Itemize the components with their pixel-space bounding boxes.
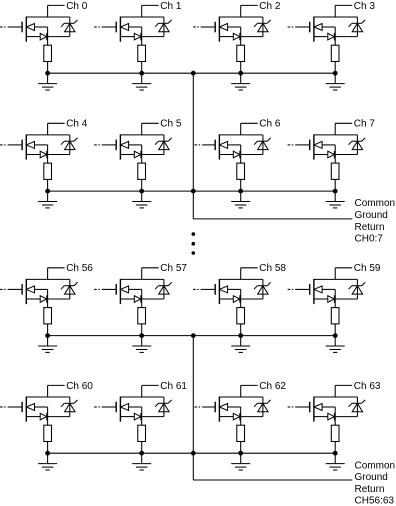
wire source/body node Ch 61	[120, 407, 163, 425]
ground Ch 1	[132, 73, 151, 90]
zener diode Z3 (clamp)	[349, 17, 366, 37]
wire drain / channel terminal Ch 62	[219, 385, 263, 397]
zener diode Z0 (clamp)	[61, 17, 78, 37]
ground Ch 59	[326, 336, 345, 353]
node junction Ch 56 on common rail	[45, 333, 50, 338]
wire resistor R56 to common rail	[47, 324, 49, 336]
diode D3 (source series diode)	[328, 33, 335, 40]
diode D61 (source series diode)	[134, 413, 141, 420]
node junction Ch 2 on common rail	[238, 71, 243, 76]
node junction Ch 1 on common rail	[139, 71, 144, 76]
resistor R62	[237, 425, 245, 441]
wire source/body node Ch 63	[314, 407, 358, 425]
wire resistor R3 to common rail	[334, 62, 336, 74]
node vertical ellipsis (channels 8..55 omitted)	[192, 232, 196, 255]
wire drain / channel terminal Ch 5	[120, 123, 163, 135]
diode D0 (source series diode)	[40, 33, 47, 40]
zener diode Z2 (clamp)	[254, 17, 271, 37]
zener diode Z7 (clamp)	[349, 135, 366, 155]
wire source/body node Ch 3	[314, 27, 358, 45]
diode D56 (source series diode)	[40, 295, 47, 302]
wire drain / channel terminal Ch 56	[26, 268, 70, 280]
svg-text:Ch 58: Ch 58	[259, 263, 286, 274]
ground Ch 60	[38, 453, 57, 470]
wire resistor R60 to common rail	[47, 442, 49, 454]
wire source/body node Ch 5	[120, 145, 163, 163]
node junction common return on rail 1	[191, 71, 196, 76]
svg-text:Ch 62: Ch 62	[259, 381, 286, 392]
transistor Q4 N-channel MOSFET switch Ch 4	[22, 134, 34, 159]
zener diode Z56 (clamp)	[61, 279, 78, 299]
wire resistor R7 to common rail	[334, 179, 336, 191]
transistor Q0 N-channel MOSFET switch Ch 0	[22, 17, 34, 42]
wire resistor R0 to common rail	[47, 62, 49, 74]
svg-text:Ch 2: Ch 2	[259, 1, 281, 12]
wire resistor R4 to common rail	[47, 179, 49, 191]
wire resistor R5 to common rail	[141, 179, 143, 191]
zener diode Z63 (clamp)	[349, 397, 366, 417]
resistor R6	[237, 163, 245, 179]
zener diode Z58 (clamp)	[254, 279, 271, 299]
transistor Q62 N-channel MOSFET switch Ch 62	[215, 397, 227, 422]
node junction Ch 58 on common rail	[238, 333, 243, 338]
node junction Ch 59 on common rail	[333, 333, 338, 338]
node junction Ch 7 on common rail	[333, 189, 338, 194]
wire gate control lead Ch 5 (dash-dot)	[94, 144, 116, 146]
svg-text:Ch 7: Ch 7	[354, 119, 376, 130]
zener diode Z5 (clamp)	[155, 135, 172, 155]
wire source/body node Ch 57	[120, 289, 163, 307]
wire source/body node Ch 60	[26, 407, 70, 425]
ground Ch 4	[38, 191, 57, 208]
node junction Ch 4 on common rail	[45, 189, 50, 194]
wire resistor R2 to common rail	[240, 62, 242, 74]
wire gate control lead Ch 3 (dash-dot)	[288, 26, 310, 28]
node junction Ch 5 on common rail	[139, 189, 144, 194]
wire drain / channel terminal Ch 1	[120, 5, 163, 17]
wire drain / channel terminal Ch 57	[120, 268, 163, 280]
diode D62 (source series diode)	[233, 413, 240, 420]
svg-text:CommonGroundReturnCH56:63: CommonGroundReturnCH56:63	[355, 460, 396, 506]
wire resistor R62 to common rail	[240, 442, 242, 454]
zener diode Z6 (clamp)	[254, 135, 271, 155]
ground Ch 3	[326, 73, 345, 90]
diode D1 (source series diode)	[134, 33, 141, 40]
wire drain / channel terminal Ch 61	[120, 385, 163, 397]
ground Ch 56	[38, 336, 57, 353]
wire gate control lead Ch 63 (dash-dot)	[288, 406, 310, 408]
resistor R1	[138, 45, 146, 61]
diode D2 (source series diode)	[233, 33, 240, 40]
node junction common return on rail 3	[191, 333, 196, 338]
wire gate control lead Ch 0 (dash-dot)	[0, 26, 22, 28]
transistor Q58 N-channel MOSFET switch Ch 58	[215, 279, 227, 304]
diode D59 (source series diode)	[328, 295, 335, 302]
transistor Q3 N-channel MOSFET switch Ch 3	[310, 17, 322, 42]
ground Ch 61	[132, 453, 151, 470]
transistor Q56 N-channel MOSFET switch Ch 56	[22, 279, 34, 304]
ground Ch 62	[231, 453, 250, 470]
node junction Ch 0 on common rail	[45, 71, 50, 76]
ground Ch 58	[231, 336, 250, 353]
diode D63 (source series diode)	[328, 413, 335, 420]
node junction Ch 6 on common rail	[238, 189, 243, 194]
node junction Ch 62 on common rail	[238, 451, 243, 456]
zener diode Z59 (clamp)	[349, 279, 366, 299]
ground Ch 5	[132, 191, 151, 208]
node junction common return on rail 4	[191, 451, 196, 456]
diode D60 (source series diode)	[40, 413, 47, 420]
resistor R5	[138, 163, 146, 179]
wire drain / channel terminal Ch 3	[314, 5, 358, 17]
wire source/body node Ch 58	[219, 289, 263, 307]
diode D4 (source series diode)	[40, 151, 47, 158]
resistor R4	[44, 163, 52, 179]
transistor Q60 N-channel MOSFET switch Ch 60	[22, 397, 34, 422]
resistor R63	[331, 425, 339, 441]
wire drain / channel terminal Ch 6	[219, 123, 263, 135]
transistor Q57 N-channel MOSFET switch Ch 57	[116, 279, 128, 304]
wire common ground return CH0:7	[193, 73, 352, 219]
wire drain / channel terminal Ch 2	[219, 5, 263, 17]
wire gate control lead Ch 1 (dash-dot)	[94, 26, 116, 28]
zener diode Z62 (clamp)	[254, 397, 271, 417]
svg-text:Ch 5: Ch 5	[160, 119, 182, 130]
ground Ch 0	[38, 73, 57, 90]
wire gate control lead Ch 6 (dash-dot)	[195, 144, 216, 146]
svg-text:Ch 4: Ch 4	[66, 119, 88, 130]
transistor Q59 N-channel MOSFET switch Ch 59	[310, 279, 322, 304]
wire drain / channel terminal Ch 60	[26, 385, 70, 397]
wire resistor R58 to common rail	[240, 324, 242, 336]
transistor Q5 N-channel MOSFET switch Ch 5	[116, 134, 128, 159]
wire common ground rail row 4	[48, 452, 336, 454]
wire resistor R57 to common rail	[141, 324, 143, 336]
node junction common return on rail 2	[191, 189, 196, 194]
wire resistor R1 to common rail	[141, 62, 143, 74]
transistor Q1 N-channel MOSFET switch Ch 1	[116, 17, 128, 42]
wire drain / channel terminal Ch 0	[26, 5, 70, 17]
wire gate control lead Ch 7 (dash-dot)	[288, 144, 310, 146]
wire drain / channel terminal Ch 59	[314, 268, 358, 280]
wire drain / channel terminal Ch 7	[314, 123, 358, 135]
ground Ch 6	[231, 191, 250, 208]
wire source/body node Ch 1	[120, 27, 163, 45]
diode D58 (source series diode)	[233, 295, 240, 302]
resistor R60	[44, 425, 52, 441]
zener diode Z61 (clamp)	[155, 397, 172, 417]
transistor Q6 N-channel MOSFET switch Ch 6	[215, 134, 227, 159]
transistor Q63 N-channel MOSFET switch Ch 63	[310, 397, 322, 422]
resistor R58	[237, 308, 245, 324]
wire gate control lead Ch 57 (dash-dot)	[94, 288, 116, 290]
wire source/body node Ch 2	[219, 27, 263, 45]
wire source/body node Ch 0	[26, 27, 70, 45]
diode D57 (source series diode)	[134, 295, 141, 302]
wire common ground rail row 2	[48, 190, 336, 192]
wire common ground rail row 3	[48, 335, 336, 337]
ground Ch 63	[326, 453, 345, 470]
diode D7 (source series diode)	[328, 151, 335, 158]
wire gate control lead Ch 61 (dash-dot)	[94, 406, 116, 408]
wire source/body node Ch 59	[314, 289, 358, 307]
wire common ground rail row 1	[48, 72, 336, 74]
diode D6 (source series diode)	[233, 151, 240, 158]
ground Ch 2	[231, 73, 250, 90]
wire source/body node Ch 6	[219, 145, 263, 163]
svg-text:Ch 61: Ch 61	[160, 381, 187, 392]
svg-text:Ch 1: Ch 1	[160, 1, 182, 12]
zener diode Z4 (clamp)	[61, 135, 78, 155]
ground Ch 7	[326, 191, 345, 208]
node junction Ch 61 on common rail	[139, 451, 144, 456]
node junction Ch 60 on common rail	[45, 451, 50, 456]
wire gate control lead Ch 59 (dash-dot)	[288, 288, 310, 290]
wire drain / channel terminal Ch 4	[26, 123, 70, 135]
node junction Ch 3 on common rail	[333, 71, 338, 76]
resistor R61	[138, 425, 146, 441]
transistor Q2 N-channel MOSFET switch Ch 2	[215, 17, 227, 42]
wire gate control lead Ch 56 (dash-dot)	[0, 288, 22, 290]
svg-text:Ch 0: Ch 0	[66, 1, 88, 12]
wire drain / channel terminal Ch 63	[314, 385, 358, 397]
node junction Ch 57 on common rail	[139, 333, 144, 338]
wire drain / channel terminal Ch 58	[219, 268, 263, 280]
wire gate control lead Ch 60 (dash-dot)	[0, 406, 22, 408]
resistor R0	[44, 45, 52, 61]
transistor Q61 N-channel MOSFET switch Ch 61	[116, 397, 128, 422]
wire common ground return CH56:63	[193, 336, 352, 480]
transistor Q7 N-channel MOSFET switch Ch 7	[310, 134, 322, 159]
wire source/body node Ch 7	[314, 145, 358, 163]
wire gate control lead Ch 58 (dash-dot)	[193, 288, 215, 290]
diode D5 (source series diode)	[134, 151, 141, 158]
wire source/body node Ch 4	[26, 145, 70, 163]
svg-text:Ch 6: Ch 6	[259, 119, 281, 130]
zener diode Z1 (clamp)	[155, 17, 172, 37]
wire gate control lead Ch 62 (dash-dot)	[195, 406, 216, 408]
node junction Ch 63 on common rail	[333, 451, 338, 456]
resistor R7	[331, 163, 339, 179]
svg-text:CommonGroundReturnCH0:7: CommonGroundReturnCH0:7	[355, 198, 396, 244]
svg-text:Ch 3: Ch 3	[354, 1, 376, 12]
svg-text:Ch 57: Ch 57	[160, 263, 187, 274]
svg-text:Ch 63: Ch 63	[354, 381, 381, 392]
wire gate control lead Ch 2 (dash-dot)	[193, 26, 215, 28]
resistor R57	[138, 308, 146, 324]
resistor R56	[44, 308, 52, 324]
wire resistor R59 to common rail	[334, 324, 336, 336]
svg-text:Ch 60: Ch 60	[66, 381, 93, 392]
svg-text:Ch 59: Ch 59	[354, 263, 381, 274]
resistor R2	[237, 45, 245, 61]
wire resistor R61 to common rail	[141, 442, 143, 454]
wire resistor R63 to common rail	[334, 442, 336, 454]
svg-text:Ch 56: Ch 56	[66, 263, 93, 274]
wire resistor R6 to common rail	[240, 179, 242, 191]
wire source/body node Ch 62	[219, 407, 263, 425]
zener diode Z57 (clamp)	[155, 279, 172, 299]
resistor R59	[331, 308, 339, 324]
wire source/body node Ch 56	[26, 289, 70, 307]
ground Ch 57	[132, 336, 151, 353]
wire gate control lead Ch 4 (dash-dot)	[0, 144, 22, 146]
resistor R3	[331, 45, 339, 61]
zener diode Z60 (clamp)	[61, 397, 78, 417]
